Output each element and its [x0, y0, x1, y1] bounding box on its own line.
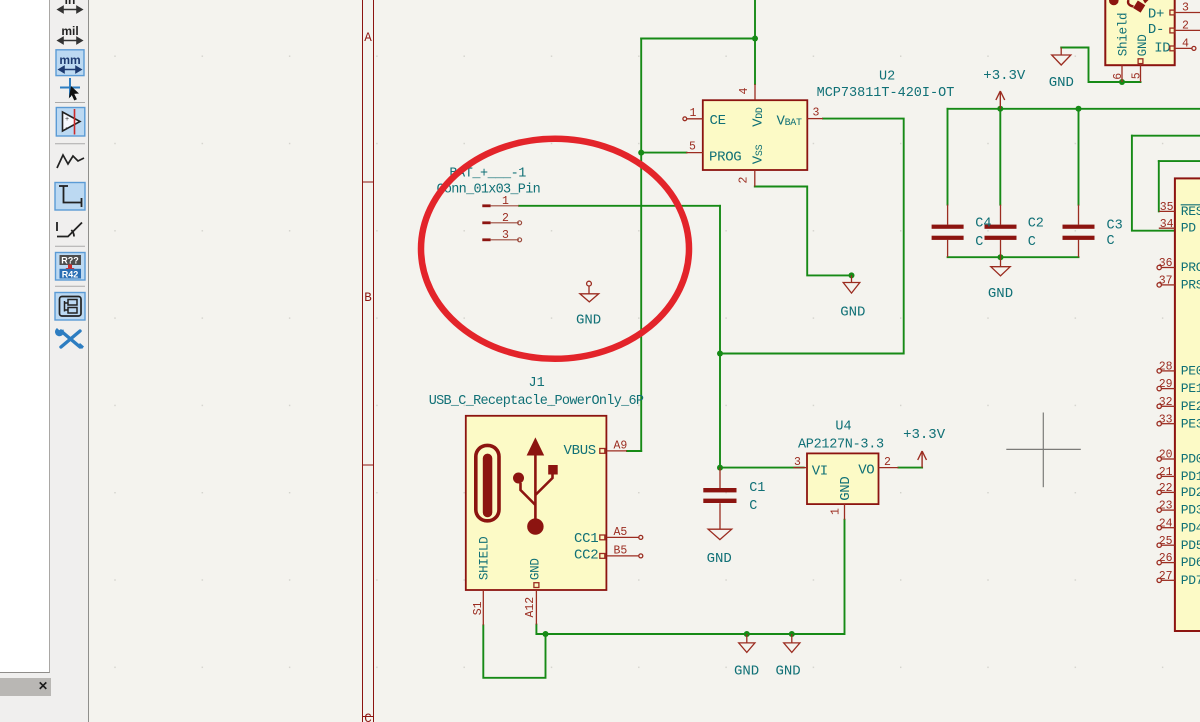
svg-text:Conn_01x03_Pin: Conn_01x03_Pin [437, 183, 540, 198]
svg-text:VO: VO [858, 462, 874, 478]
svg-text:32: 32 [1159, 396, 1173, 409]
svg-text:34: 34 [1160, 218, 1174, 231]
svg-text:3: 3 [813, 107, 820, 120]
svg-text:GND: GND [776, 663, 801, 679]
svg-text:A: A [364, 31, 372, 45]
svg-text:28: 28 [1159, 361, 1173, 374]
svg-text:PE2: PE2 [1181, 399, 1200, 414]
svg-text:+: + [65, 116, 69, 123]
svg-text:PD1: PD1 [1181, 469, 1200, 484]
svg-text:26: 26 [1159, 552, 1173, 565]
svg-text:PE1: PE1 [1181, 381, 1200, 396]
svg-text:6: 6 [1112, 73, 1125, 80]
svg-text:21: 21 [1159, 466, 1173, 479]
svg-text:PD7: PD7 [1181, 573, 1200, 588]
svg-text:in: in [65, 0, 76, 7]
svg-text:PE0: PE0 [1181, 364, 1200, 379]
svg-text:29: 29 [1159, 378, 1173, 391]
svg-text:22: 22 [1159, 482, 1173, 495]
svg-text:2: 2 [884, 456, 891, 469]
svg-text:B: B [364, 291, 372, 305]
svg-text:C2: C2 [1028, 216, 1044, 231]
svg-text:20: 20 [1159, 449, 1173, 462]
svg-text:PD2: PD2 [1181, 485, 1200, 500]
svg-text:C3: C3 [1107, 219, 1123, 234]
svg-text:PD: PD [1181, 221, 1197, 236]
svg-text:5: 5 [689, 141, 696, 154]
svg-text:PD0: PD0 [1181, 452, 1200, 467]
svg-text:B5: B5 [614, 545, 628, 558]
svg-text:CC1: CC1 [574, 531, 598, 547]
svg-text:PD5: PD5 [1181, 538, 1200, 553]
svg-text:USB_C_Receptacle_PowerOnly_6P: USB_C_Receptacle_PowerOnly_6P [429, 394, 644, 409]
svg-text:3: 3 [502, 229, 509, 242]
svg-text:U4: U4 [835, 420, 851, 435]
svg-text:MCP73811T-420I-OT: MCP73811T-420I-OT [817, 86, 955, 101]
svg-text:J1: J1 [529, 376, 545, 391]
svg-text:4: 4 [1182, 38, 1189, 51]
svg-text:S1: S1 [472, 601, 485, 615]
svg-text:23: 23 [1159, 500, 1173, 513]
svg-text:36: 36 [1159, 257, 1173, 270]
svg-text:2: 2 [1182, 20, 1189, 33]
svg-text:27: 27 [1159, 570, 1173, 583]
svg-text:+3.3V: +3.3V [983, 68, 1026, 84]
svg-text:35: 35 [1160, 201, 1174, 214]
svg-text:C: C [1028, 235, 1036, 250]
svg-text:A9: A9 [614, 440, 628, 453]
svg-text:A5: A5 [614, 526, 628, 539]
svg-text:1: 1 [690, 107, 697, 120]
svg-text:37: 37 [1159, 275, 1173, 288]
svg-text:C4: C4 [975, 216, 991, 231]
svg-text:25: 25 [1159, 535, 1173, 548]
svg-text:C: C [975, 235, 983, 250]
svg-text:D+: D+ [1148, 6, 1164, 22]
svg-text:GND: GND [734, 663, 759, 679]
svg-text:GND: GND [840, 304, 865, 320]
svg-text:C: C [364, 712, 372, 722]
svg-text:GND: GND [576, 313, 601, 329]
svg-text:2: 2 [738, 177, 751, 184]
svg-text:PD4: PD4 [1181, 520, 1200, 535]
svg-text:mil: mil [61, 24, 78, 38]
svg-text:A12: A12 [524, 597, 537, 618]
svg-text:U2: U2 [879, 70, 895, 85]
svg-text:VBUS: VBUS [564, 443, 596, 459]
svg-text:3: 3 [1182, 2, 1189, 15]
svg-text:VI: VI [812, 464, 828, 480]
svg-text:1: 1 [830, 508, 843, 515]
svg-text:GND: GND [988, 286, 1013, 302]
svg-text:D-: D- [1148, 22, 1164, 38]
svg-text:GND: GND [529, 558, 543, 580]
svg-text:33: 33 [1159, 413, 1173, 426]
svg-text:GND: GND [838, 476, 854, 500]
svg-text:R??: R?? [61, 256, 79, 266]
svg-text:3: 3 [794, 456, 801, 469]
svg-text:PRO: PRO [1181, 260, 1200, 275]
svg-text:PROG: PROG [709, 150, 741, 166]
svg-text:Shield: Shield [1117, 13, 1131, 57]
svg-text:mm: mm [59, 53, 80, 67]
svg-text:R42: R42 [62, 269, 79, 279]
svg-text:GND: GND [1049, 75, 1074, 91]
svg-text:2: 2 [502, 212, 509, 225]
svg-text:C: C [749, 499, 757, 514]
svg-text:SHIELD: SHIELD [478, 537, 492, 581]
svg-text:5: 5 [1130, 72, 1143, 79]
svg-text:C: C [1107, 234, 1115, 249]
svg-text:C1: C1 [749, 481, 765, 496]
svg-text:PE3: PE3 [1181, 416, 1200, 431]
svg-text:ID: ID [1154, 41, 1170, 57]
svg-text:CE: CE [710, 113, 726, 129]
svg-text:PD3: PD3 [1181, 503, 1200, 518]
svg-text:PD6: PD6 [1181, 555, 1200, 570]
svg-text:GND: GND [707, 551, 732, 567]
svg-text:PRS: PRS [1181, 278, 1200, 293]
svg-text:CC2: CC2 [574, 548, 598, 564]
svg-text:RES: RES [1181, 204, 1200, 219]
svg-text:4: 4 [738, 88, 751, 95]
svg-text:AP2127N-3.3: AP2127N-3.3 [798, 438, 884, 453]
svg-text:24: 24 [1159, 517, 1173, 530]
svg-text:+3.3V: +3.3V [903, 427, 946, 443]
